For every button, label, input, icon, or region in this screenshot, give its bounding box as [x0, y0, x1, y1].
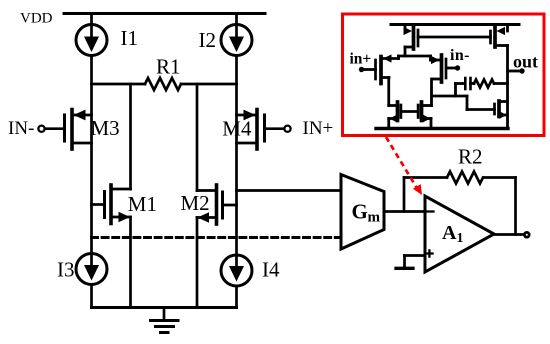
svg-text:I3: I3 [57, 258, 75, 282]
svg-text:in-: in- [450, 47, 470, 64]
svg-text:R2: R2 [458, 145, 483, 169]
svg-text:m: m [368, 210, 381, 226]
svg-text:I4: I4 [262, 258, 280, 282]
svg-text:M2: M2 [181, 191, 210, 215]
svg-text:I2: I2 [199, 28, 217, 52]
svg-text:R1: R1 [156, 55, 181, 79]
svg-text:A: A [442, 222, 457, 244]
svg-text:1: 1 [457, 231, 464, 246]
svg-text:IN+: IN+ [303, 118, 334, 139]
svg-text:M1: M1 [128, 192, 157, 216]
svg-text:out: out [513, 52, 538, 72]
svg-text:I1: I1 [121, 26, 139, 50]
svg-text:M4: M4 [222, 117, 252, 141]
svg-text:M3: M3 [91, 116, 120, 140]
svg-text:IN-: IN- [8, 118, 34, 139]
svg-text:VDD: VDD [20, 11, 53, 27]
svg-text:G: G [352, 200, 368, 224]
svg-text:in+: in+ [350, 51, 372, 68]
